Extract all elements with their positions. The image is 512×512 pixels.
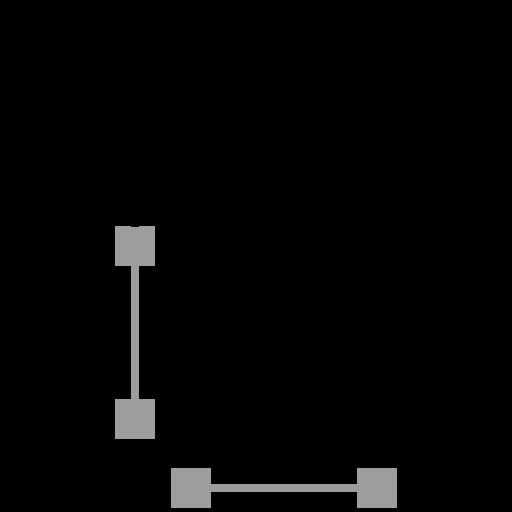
node B (lower-left square) [115,399,155,439]
node D (bottom-right square) [357,468,397,508]
wire edge1 (vertical, node A to node B) [131,266,139,399]
node A top notch (black gap in top edge) [131,226,139,227]
node C (bottom-left square) [171,468,211,508]
wire edge2 (horizontal, node C to node D) [211,484,357,492]
node A (top-left square) [115,226,155,266]
